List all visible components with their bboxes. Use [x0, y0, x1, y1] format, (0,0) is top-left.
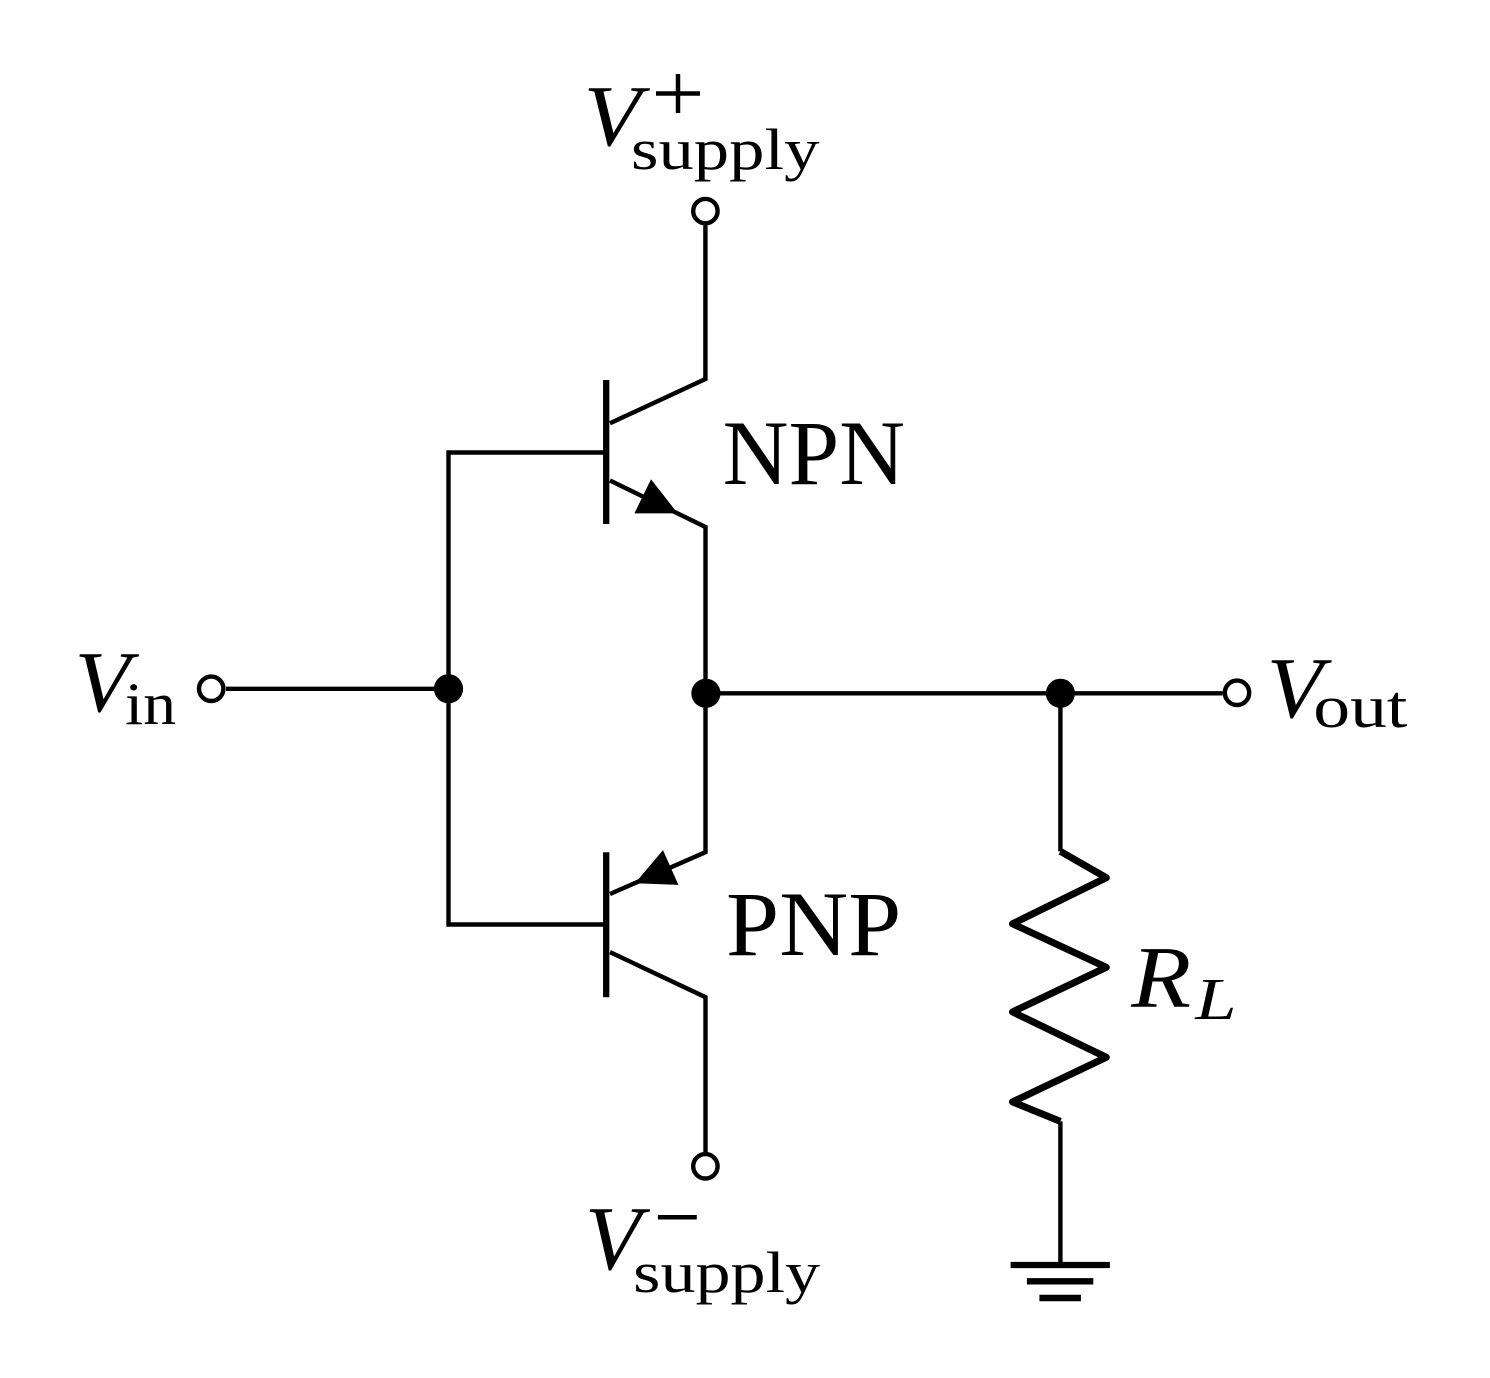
- svg-text:supply: supply: [633, 1240, 820, 1305]
- svg-text:L: L: [1194, 966, 1236, 1032]
- svg-text:NPN: NPN: [723, 402, 905, 504]
- svg-text:supply: supply: [631, 117, 819, 182]
- svg-text:out: out: [1313, 674, 1407, 741]
- svg-text:PNP: PNP: [726, 873, 901, 975]
- svg-text:in: in: [125, 671, 176, 738]
- svg-text:R: R: [1130, 930, 1191, 1027]
